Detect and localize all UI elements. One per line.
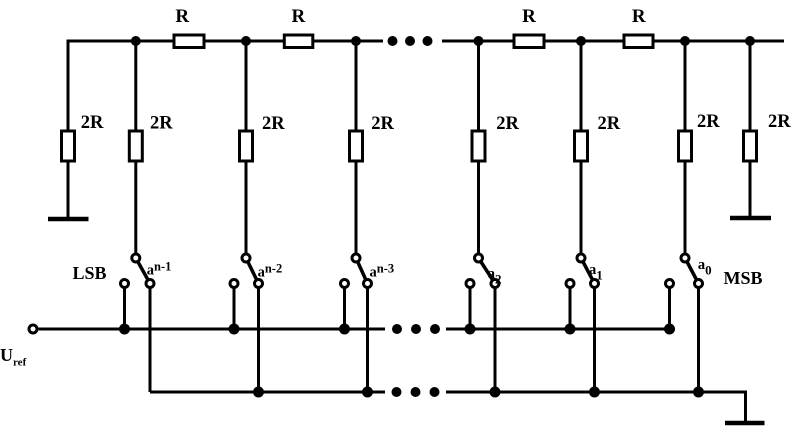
svg-text:2R: 2R [697,112,720,132]
svg-text:MSB: MSB [724,268,763,288]
svg-text:2R: 2R [262,114,285,134]
svg-text:2R: 2R [371,114,394,134]
svg-text:R: R [292,6,306,27]
svg-text:2R: 2R [768,112,791,132]
svg-text:R: R [175,6,189,27]
svg-text:LSB: LSB [73,263,107,283]
svg-text:R: R [522,6,536,27]
svg-text:R: R [632,6,646,27]
svg-text:2R: 2R [598,114,621,134]
svg-text:2R: 2R [150,114,173,134]
svg-text:2R: 2R [81,113,104,133]
svg-text:2R: 2R [496,114,519,134]
